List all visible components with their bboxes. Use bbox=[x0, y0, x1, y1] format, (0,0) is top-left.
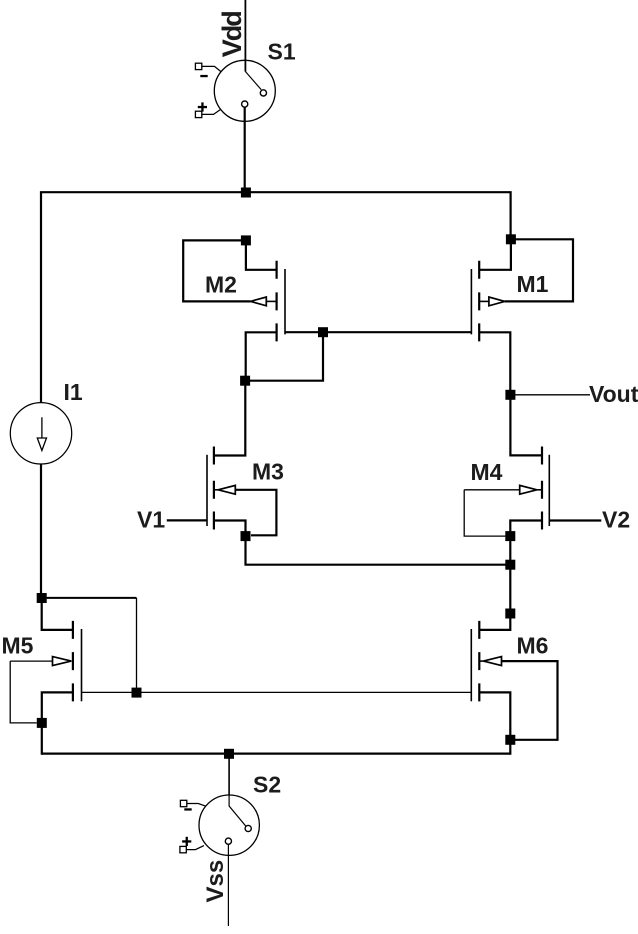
transistor M2 bbox=[183, 240, 285, 380]
current source I1 bbox=[10, 403, 71, 594]
svg-text:V1: V1 bbox=[137, 507, 165, 533]
node Vout bbox=[510, 394, 590, 396]
wire I1 to mirror gate bbox=[42, 598, 137, 693]
wire tail link bbox=[246, 536, 511, 613]
transistor M6 bbox=[471, 614, 557, 755]
voltage source S2 bbox=[180, 754, 260, 926]
wire bottom rail bbox=[42, 752, 511, 754]
junction M4 source node bbox=[505, 531, 515, 541]
svg-text:I1: I1 bbox=[64, 379, 83, 405]
junction top rail bbox=[241, 188, 251, 198]
junction M6 source bbox=[505, 735, 515, 745]
svg-text:M3: M3 bbox=[252, 459, 284, 485]
junction I1 bottom bbox=[37, 593, 47, 603]
svg-text:M1: M1 bbox=[517, 271, 549, 297]
junction M5 source bbox=[37, 718, 47, 728]
svg-text:Vout: Vout bbox=[589, 381, 638, 407]
svg-text:M6: M6 bbox=[517, 633, 549, 659]
transistor M3 bbox=[167, 381, 277, 536]
junction mirror gate rail bbox=[132, 688, 142, 698]
junction M3 source node bbox=[241, 531, 251, 541]
voltage source S1 bbox=[195, 0, 275, 192]
svg-text:M4: M4 bbox=[471, 459, 503, 485]
junction bottom rail bbox=[224, 749, 234, 759]
junction M1 drain bbox=[506, 234, 516, 244]
wire top rail bbox=[41, 192, 511, 402]
svg-text:S1: S1 bbox=[268, 39, 296, 65]
junction gate rail bbox=[318, 327, 328, 337]
transistor M4 bbox=[464, 395, 601, 536]
svg-text:Vdd: Vdd bbox=[217, 12, 247, 58]
junction M2 source node bbox=[240, 376, 250, 386]
svg-text:M5: M5 bbox=[2, 633, 34, 659]
svg-text:S2: S2 bbox=[253, 772, 281, 798]
svg-text:M2: M2 bbox=[205, 272, 237, 298]
svg-text:V2: V2 bbox=[602, 507, 630, 533]
svg-text:Vss: Vss bbox=[202, 860, 229, 903]
junction M2 drain bbox=[241, 235, 251, 245]
wire gate rail M2-M1 bbox=[245, 332, 471, 381]
transistor M5 bbox=[10, 598, 471, 755]
junction tail low bbox=[505, 609, 515, 619]
transistor M1 bbox=[471, 239, 573, 394]
junction tail mid bbox=[505, 560, 515, 570]
